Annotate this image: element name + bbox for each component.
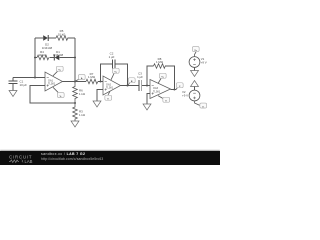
wire OA3 output bbox=[171, 89, 177, 91]
svg-text:V-: V- bbox=[60, 96, 62, 98]
resistor R3 vertical bbox=[73, 103, 78, 121]
flag node B at OA2 output bbox=[128, 78, 135, 83]
wire C3 to OA3 bbox=[142, 85, 150, 87]
wire right vertical x=75 bbox=[74, 38, 76, 82]
flag OA2 V- bbox=[105, 95, 112, 100]
wire C2 feedback loop bbox=[101, 64, 113, 82]
svg-text:TL081: TL081 bbox=[153, 90, 161, 93]
wire top branch y=38 bbox=[35, 37, 43, 39]
ground G2 under R3 bbox=[71, 121, 79, 127]
node junction x174.4 y89.5 bbox=[173, 89, 175, 91]
svg-text:10 µF: 10 µF bbox=[20, 83, 28, 87]
wire V1 top stub bbox=[195, 52, 197, 57]
flag OA3 V+ bbox=[159, 73, 166, 78]
svg-text:+9 V: +9 V bbox=[201, 61, 207, 65]
wire OA2 vminus stub bbox=[108, 91, 110, 95]
watermark text bbox=[41, 153, 85, 157]
svg-text:10 kΩ: 10 kΩ bbox=[58, 32, 66, 36]
svg-text:LAB: LAB bbox=[25, 159, 33, 164]
flag OA3 V- bbox=[163, 97, 170, 102]
wire middle branch y=57.5 bbox=[35, 57, 37, 59]
flag V2 V- bbox=[200, 103, 207, 108]
node junction x75 y57.5 bbox=[74, 57, 76, 59]
svg-text:TL081: TL081 bbox=[48, 83, 56, 86]
flag OA1 V- bbox=[57, 93, 64, 98]
voltage source V1 bbox=[189, 57, 200, 68]
node junction x147 y85.5 bbox=[146, 85, 148, 87]
svg-text:V-: V- bbox=[107, 99, 109, 101]
capacitor C1 bbox=[9, 78, 18, 91]
wire V2 bottom stub bbox=[195, 101, 200, 105]
wire OA2 plus input to ground bbox=[97, 90, 103, 102]
op-amp OA1 bbox=[45, 72, 63, 91]
capacitor C3 bbox=[139, 80, 142, 91]
wire R7 to OA2 bbox=[98, 81, 103, 83]
flag node A at OA1 output bbox=[78, 75, 85, 80]
svg-text:1 kΩ: 1 kΩ bbox=[79, 113, 86, 117]
wire flag stub at OA3 output bbox=[176, 88, 178, 90]
node junction x127.5 y85.5 bbox=[127, 85, 129, 87]
svg-text:V-: V- bbox=[202, 107, 204, 109]
svg-text:TL081: TL081 bbox=[106, 87, 114, 90]
wire OA1 output bbox=[63, 81, 87, 83]
svg-text:1 µF: 1 µF bbox=[109, 55, 115, 59]
resistor R8 bbox=[154, 64, 166, 69]
wire OA1 vminus stub bbox=[53, 87, 58, 92]
ground G1 under C1 bbox=[9, 91, 17, 97]
ground G6 above V2 flipped bbox=[191, 81, 199, 87]
resistor R7 bbox=[86, 79, 98, 84]
svg-text:1N4148: 1N4148 bbox=[53, 53, 64, 57]
diode D2 bbox=[43, 35, 48, 41]
op-amp OA2 bbox=[103, 76, 121, 95]
node junction x35 y77.5 bbox=[34, 77, 36, 79]
wire flag stub at output node bbox=[76, 80, 79, 82]
wire V1 bottom stub bbox=[194, 68, 196, 71]
wire OA2 output row y=85.5 bbox=[121, 85, 140, 87]
wire OA1 vplus stub bbox=[53, 71, 58, 76]
svg-text:1 µF: 1 µF bbox=[137, 75, 143, 79]
circuitlab logo bbox=[8, 152, 38, 164]
wire OA3 vminus stub bbox=[158, 96, 163, 99]
capacitor C2 bbox=[113, 60, 116, 69]
flag node C at OA3 output bbox=[176, 83, 183, 88]
flag V1 V+ bbox=[192, 47, 199, 52]
wire left vertical feedback x=35 bbox=[34, 38, 36, 78]
watermark bar bbox=[0, 151, 220, 165]
ground G4 under OA3 plus input bbox=[143, 104, 151, 110]
voltage source V2 bbox=[189, 90, 200, 101]
wire OA2 vplus stub bbox=[111, 74, 114, 80]
svg-text:1 kΩ: 1 kΩ bbox=[79, 92, 86, 96]
svg-text:10 kΩ: 10 kΩ bbox=[38, 53, 46, 57]
wire flag stub at OA2 output bbox=[128, 83, 130, 86]
wire OA1 plus input loop bbox=[30, 86, 75, 104]
wire R8 feedback loop bbox=[147, 66, 154, 86]
wire OA3 plus input to ground bbox=[147, 94, 150, 105]
svg-text:1 MΩ: 1 MΩ bbox=[156, 60, 164, 64]
diode D1 bbox=[54, 55, 59, 61]
resistor R4 bbox=[37, 55, 49, 60]
resistor R5 bbox=[56, 36, 68, 41]
node junction x75 y103 bbox=[74, 102, 76, 104]
resistor R6 vertical bbox=[73, 82, 78, 104]
ground G5 below V1 bbox=[191, 71, 199, 77]
flag OA2 V+ bbox=[112, 68, 119, 73]
op-amp OA3 bbox=[150, 80, 171, 99]
node junction x35 y57.5 bbox=[34, 57, 36, 59]
wire C1 to OA1 inverting input y=77.5 bbox=[13, 77, 45, 79]
svg-text:+9 V: +9 V bbox=[182, 94, 188, 98]
node junction x100.5 y81.5 bbox=[100, 81, 102, 83]
flag OA1 V+ bbox=[56, 66, 63, 71]
node junction x75 y81.5 bbox=[74, 81, 76, 83]
svg-text:1 MΩ: 1 MΩ bbox=[88, 75, 96, 79]
ground G3 under OA2 plus input bbox=[93, 101, 101, 107]
wire OA3 vplus stub bbox=[158, 79, 161, 84]
svg-text:V-: V- bbox=[165, 101, 167, 103]
wire V2 top stub bbox=[194, 87, 196, 91]
